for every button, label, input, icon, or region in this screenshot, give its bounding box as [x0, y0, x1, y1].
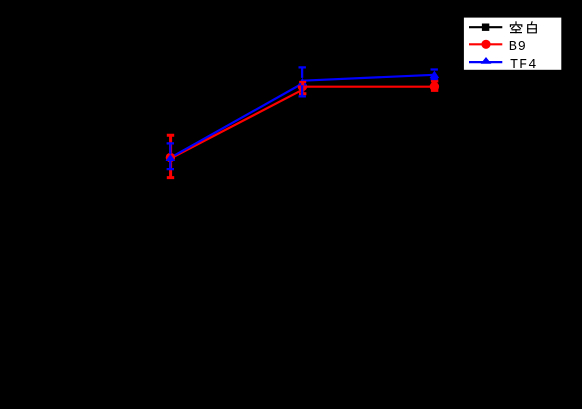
空 [515, 22, 517, 24]
白 [530, 22, 533, 24]
legend row 2: red line + circle [469, 43, 502, 45]
series B9 (red) error bar top cap at p2 (thin) [299, 81, 306, 83]
legend row 3: blue line + triangle [469, 61, 502, 63]
legend box [464, 18, 561, 70]
series B9 (red) line [170, 87, 434, 159]
legend row 1 text: 空白 drawn as paths [510, 22, 536, 33]
svg-text:TF4: TF4 [510, 58, 537, 73]
series TF4 (blue) error bars (gap at symbol) [167, 67, 438, 169]
legend row 1: black line + square [469, 26, 502, 28]
series B9 (red) error bars [167, 81, 439, 178]
svg-text:B9: B9 [509, 40, 527, 55]
series TF4 (blue) line [170, 75, 434, 158]
series B9 (red) circle markers [166, 82, 439, 162]
series TF4 (blue) triangle markers [166, 71, 440, 162]
